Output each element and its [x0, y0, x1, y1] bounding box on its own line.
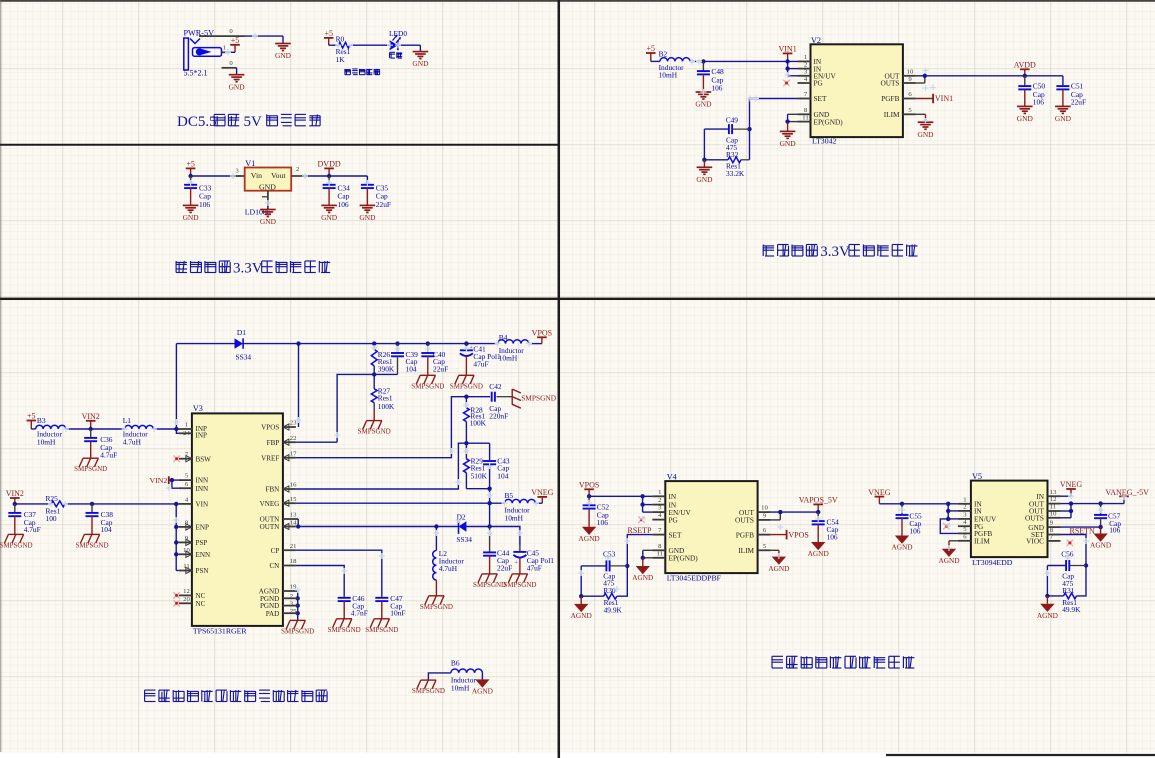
- wire VIN2 to R25: [15, 503, 51, 505]
- power port VPOS at V4 PGFB: [771, 530, 809, 540]
- svg-text:R31: R31: [1062, 586, 1075, 595]
- pin 1 GND of V1: [262, 191, 268, 210]
- pin 18 of V3: [269, 558, 297, 570]
- svg-text:VIN2: VIN2: [6, 489, 24, 498]
- junction SET/C53/R30: [625, 564, 629, 568]
- svg-text:17: 17: [290, 450, 297, 457]
- svg-text:LT3045EDDPBF: LT3045EDDPBF: [667, 574, 722, 583]
- op-amp U? regulator V1 LD1086 box: [245, 159, 292, 192]
- svg-text:VAPOS_5V: VAPOS_5V: [799, 496, 838, 505]
- svg-text:VPOS: VPOS: [261, 424, 279, 432]
- resistor R25 100: [46, 494, 66, 523]
- svg-text:47uF: 47uF: [527, 564, 542, 573]
- svg-text:AGND: AGND: [891, 543, 912, 552]
- svg-text:22uF: 22uF: [1071, 98, 1086, 107]
- svg-text:49.9K: 49.9K: [604, 605, 623, 614]
- capacitor C48 106: [697, 61, 724, 92]
- svg-text:V4: V4: [667, 473, 677, 482]
- no-connect X on V3 BSW: [173, 456, 179, 462]
- junction C53/R30/AGND: [579, 594, 583, 598]
- inductor L1 4.7uH: [123, 416, 154, 446]
- svg-text:106: 106: [597, 518, 608, 527]
- svg-text:RSETP: RSETP: [628, 526, 653, 535]
- junction SET/C56/R31: [1084, 563, 1088, 567]
- svg-text:SMPSGND: SMPSGND: [74, 465, 107, 473]
- junction node A R28/FBN/R29/C43: [464, 441, 468, 445]
- ground AGND below V4 GND: [632, 558, 653, 582]
- pin 4 of V5: [958, 519, 984, 531]
- title analog 3.3V regulator: [763, 244, 917, 260]
- svg-text:100K: 100K: [378, 402, 395, 411]
- svg-text:2: 2: [804, 61, 807, 68]
- net label RSETP: [628, 526, 653, 535]
- ground GND at LED: [412, 52, 429, 69]
- pin 24 of V3: [179, 430, 207, 440]
- svg-text:VNEG: VNEG: [531, 488, 553, 497]
- wire V2 GND pins tie: [788, 114, 798, 121]
- svg-text:ENN: ENN: [196, 551, 211, 559]
- capacitor C38 104: [86, 504, 114, 535]
- pin 1 of V5: [958, 496, 983, 508]
- op-amp converter V3 TPS65131RGER box: [192, 404, 283, 626]
- power +5 at V3 input: [27, 412, 37, 429]
- pin 9 of V2: [880, 76, 915, 88]
- inductor B3 10mH: [36, 416, 66, 446]
- wire enable pins tie: [176, 504, 179, 571]
- pin 8 of V2: [798, 107, 830, 119]
- svg-text:AGND: AGND: [768, 564, 789, 573]
- svg-text:220nF: 220nF: [489, 412, 508, 421]
- no-connect X on V2 PG: [783, 80, 789, 86]
- label LD1086: [245, 208, 271, 217]
- svg-text:INN: INN: [196, 485, 209, 493]
- wire B3 to L1: [66, 428, 125, 430]
- svg-text:VIN1: VIN1: [935, 94, 953, 103]
- svg-text:INP: INP: [196, 431, 207, 439]
- title dual-rail LDO: [772, 656, 914, 668]
- resistor R27 100K: [371, 374, 395, 420]
- label TPS65131RGER: [193, 627, 248, 636]
- wire OUTN rail: [298, 526, 458, 528]
- capacitor C37 4.7uF: [8, 504, 40, 535]
- pin 0 bottom of jack: [222, 60, 237, 68]
- pin 0 top of jack: [199, 28, 245, 36]
- ground GND at ILIM: [917, 122, 934, 139]
- svg-text:+: +: [514, 560, 518, 567]
- wire V5 IN tie: [948, 504, 958, 519]
- svg-text:GND: GND: [412, 59, 429, 68]
- ground GND below C50: [1017, 106, 1034, 123]
- connector PWR-5V barrel jack body: [184, 38, 222, 78]
- wire section divider horizontal full: [0, 298, 1155, 300]
- svg-text:GND: GND: [183, 213, 200, 222]
- junction gnd pin25: [296, 611, 300, 615]
- power VNEG at V5 input: [868, 488, 890, 504]
- wire B5 to VNEG port: [535, 502, 542, 504]
- pin 1 of V2: [798, 54, 822, 66]
- svg-text:1: 1: [804, 54, 807, 61]
- svg-text:B2: B2: [659, 49, 668, 58]
- ground AGND at V4 ILIM: [768, 557, 789, 573]
- pin arrow V3 right: [283, 455, 289, 461]
- junction VANEG/C57: [1098, 501, 1102, 505]
- wire jack pin0 to GND: [245, 36, 284, 43]
- pin 6 of V2: [881, 91, 916, 103]
- svg-text:390K: 390K: [378, 364, 395, 373]
- svg-text:V5: V5: [972, 472, 982, 481]
- pin 3 of V3: [260, 600, 298, 610]
- wire VPOS to V4 IN: [589, 495, 652, 497]
- ground SMPSGND below C37: [0, 534, 33, 549]
- ground GND at jack top pin: [275, 44, 292, 61]
- svg-text:NC: NC: [196, 600, 206, 608]
- resistor R26 390K: [371, 344, 395, 375]
- wire section divider horizontal left: [0, 144, 559, 146]
- wire V5 ILIM down: [949, 541, 958, 549]
- svg-text:SMPSGND: SMPSGND: [412, 687, 445, 695]
- pin arrow V3 right: [283, 523, 289, 529]
- junction ENP: [174, 525, 178, 529]
- svg-text:PAD: PAD: [266, 610, 280, 618]
- power port VIN1 at PGFB: [916, 94, 953, 104]
- ground AGND at B6: [472, 679, 493, 695]
- svg-text:R25: R25: [46, 494, 59, 503]
- junction VIN1/pin1: [785, 59, 789, 63]
- pin 7 of V2: [798, 91, 828, 103]
- svg-text:PSN: PSN: [196, 567, 209, 575]
- pin 17 of V3: [261, 450, 297, 462]
- wire V4 ILIM down: [771, 550, 779, 556]
- capacitor C36 4.7uF: [84, 429, 117, 459]
- pin 12 of V5: [1029, 496, 1061, 508]
- pin 5 of V4: [738, 543, 770, 555]
- svg-text:FBP: FBP: [267, 439, 280, 447]
- wire rail to VPOS port: [529, 343, 542, 345]
- ground SMPSGND at B6: [412, 680, 445, 695]
- pin 8 of V4: [652, 543, 684, 555]
- wire IN pins tie: [788, 61, 798, 75]
- pin 9 of V4: [735, 513, 771, 525]
- wire SET to C56/R31: [1061, 535, 1087, 566]
- wire V3 gnd pins tie: [297, 591, 299, 620]
- resistor R29 510K: [464, 443, 490, 489]
- svg-text:21: 21: [290, 543, 297, 550]
- wire +5 to B2: [651, 60, 660, 62]
- svg-text:OUTS: OUTS: [735, 516, 754, 525]
- wire FBP node: [337, 374, 397, 442]
- svg-text:4.7uF: 4.7uF: [24, 525, 41, 534]
- power VPOS at top rail: [532, 329, 552, 344]
- inductor B2 10mH: [659, 49, 690, 79]
- resistor R28 100K: [464, 397, 487, 444]
- svg-text:AGND: AGND: [472, 687, 493, 696]
- wire VNEG rail: [296, 502, 505, 504]
- svg-text:106: 106: [909, 527, 920, 536]
- power +5 at LED circuit: [324, 29, 334, 45]
- svg-text:+5: +5: [186, 160, 195, 169]
- capacitor C41 Cap Pol1 47uF: [460, 344, 501, 376]
- svg-text:VIN1: VIN1: [778, 45, 796, 54]
- pin 19 of V3: [259, 584, 298, 596]
- svg-text:+5: +5: [647, 44, 656, 53]
- capacitor C45 Cap Pol1 47uF: [513, 546, 554, 574]
- svg-text:SMPSGND: SMPSGND: [450, 382, 483, 390]
- svg-text:106: 106: [338, 200, 349, 209]
- wire C49 left leg down: [703, 129, 705, 160]
- svg-text:B6: B6: [451, 659, 460, 668]
- no-connect X on V5 PG: [943, 523, 949, 529]
- junction C41 top: [464, 341, 468, 345]
- svg-text:LT3094EDD: LT3094EDD: [972, 558, 1013, 567]
- pin 1 of jack: [222, 45, 230, 53]
- svg-text:100: 100: [46, 514, 57, 523]
- junction V2 gnd tie: [785, 119, 789, 123]
- wire LED0 to GND: [398, 45, 421, 51]
- pin 4 of V4: [652, 512, 678, 524]
- junction D2/C44/VNEG riser: [487, 524, 491, 528]
- svg-text:PG: PG: [669, 515, 679, 524]
- ground SMPSGND below L2: [420, 596, 453, 611]
- svg-text:AGND: AGND: [571, 611, 592, 620]
- svg-text:SMPSGND: SMPSGND: [411, 382, 444, 390]
- svg-text:15: 15: [290, 496, 297, 503]
- ground SMPSGND below R27: [358, 421, 391, 436]
- svg-text:10: 10: [761, 505, 768, 512]
- wire V2 OUT/OUTS tie: [916, 76, 925, 83]
- svg-text:GND: GND: [1017, 114, 1034, 123]
- op-amp regulator V4 LT3045EDDPBF box: [665, 473, 757, 574]
- pin 6 of V4: [736, 527, 771, 539]
- power +5 at jack: [230, 36, 240, 52]
- svg-text:1: 1: [185, 422, 188, 429]
- svg-text:GND: GND: [780, 139, 797, 148]
- capacitor C50 106: [1018, 76, 1045, 107]
- capacitor C42 220nF: [466, 382, 512, 421]
- ground SMPSGND below C41: [450, 375, 483, 390]
- svg-text:10nF: 10nF: [390, 608, 405, 617]
- svg-text:OUTN: OUTN: [260, 523, 280, 531]
- svg-text:SS34: SS34: [456, 535, 472, 544]
- junction VREF/C42/R28: [464, 395, 468, 399]
- svg-text:GND: GND: [1055, 114, 1072, 123]
- svg-text:5.5*2.1: 5.5*2.1: [184, 69, 208, 78]
- pin arrow V3 right: [283, 500, 289, 506]
- svg-text:13: 13: [290, 512, 297, 519]
- wire VNEG riser to OUTN rail: [489, 503, 491, 526]
- svg-text:10mH: 10mH: [659, 71, 678, 80]
- svg-text:SMPSGND: SMPSGND: [521, 394, 557, 403]
- power DVDD: [318, 160, 341, 176]
- junction C39 top: [395, 341, 399, 345]
- svg-text:Vin: Vin: [251, 171, 262, 180]
- wire CP to C47: [296, 550, 382, 595]
- capacitor C43 104: [466, 443, 510, 503]
- svg-text:16: 16: [290, 482, 297, 489]
- svg-text:SET: SET: [669, 530, 683, 539]
- svg-text:PSP: PSP: [196, 539, 208, 547]
- op-amp regulator V5 LT3094EDD box: [971, 472, 1048, 557]
- capacitor C52 106: [583, 496, 610, 527]
- svg-text:22uF: 22uF: [433, 364, 448, 373]
- svg-text:14: 14: [290, 519, 297, 526]
- svg-text:10mH: 10mH: [499, 354, 518, 363]
- capacitor C49 475: [704, 116, 749, 153]
- ground SMPSGND below C46: [328, 619, 361, 634]
- pin 11 of V5: [1029, 504, 1061, 516]
- svg-text:GND: GND: [695, 100, 712, 109]
- diode D1 SS34: [176, 328, 251, 429]
- power VAPOS_5V: [799, 496, 838, 512]
- power VIN2 at B3/C36: [82, 412, 100, 429]
- svg-text:12: 12: [183, 588, 190, 595]
- svg-text:49.9K: 49.9K: [1062, 605, 1081, 614]
- wire EN/UV to PGFB loop: [940, 519, 958, 534]
- svg-text:SMPSGND: SMPSGND: [358, 428, 391, 436]
- pin 9 of V3: [179, 535, 207, 547]
- ground GND below C48: [695, 92, 712, 109]
- svg-text:18: 18: [290, 558, 297, 565]
- svg-text:106: 106: [711, 83, 722, 92]
- wire +5 to V1 Vin: [191, 175, 241, 177]
- inductor B5 10mH: [505, 491, 536, 523]
- svg-text:106: 106: [827, 533, 838, 542]
- pin 13 of V3: [260, 512, 299, 524]
- junction pin2 tie: [785, 66, 789, 70]
- wire V2 ILIM to GND: [916, 114, 926, 122]
- capacitor C33 106: [184, 176, 212, 209]
- svg-text:+5: +5: [324, 29, 333, 38]
- svg-text:FBN: FBN: [265, 486, 279, 494]
- no-connect X on V4 PG: [638, 516, 644, 522]
- svg-text:VIN2: VIN2: [82, 412, 100, 421]
- ground SMPSGND below V3: [281, 620, 314, 635]
- pin 2 of V2: [798, 61, 822, 73]
- wire SET to C53/R30: [627, 535, 652, 566]
- svg-text:10mH: 10mH: [505, 513, 524, 522]
- svg-text:GND: GND: [696, 175, 713, 184]
- svg-text:VPOS: VPOS: [579, 481, 599, 490]
- pin 11 of V3: [179, 563, 209, 575]
- svg-text:R32: R32: [726, 150, 739, 159]
- svg-text:3.3V: 3.3V: [820, 244, 850, 260]
- pin 1 of V3: [179, 422, 207, 433]
- wire pin13 step: [297, 519, 299, 527]
- wire pin13 link: [1061, 495, 1072, 497]
- pin 10 of V4: [739, 505, 771, 517]
- wire +5 to B3: [31, 428, 35, 430]
- junction R26/R27/FBP: [372, 372, 376, 376]
- no-connect X on V5 VIOC: [1067, 540, 1073, 546]
- inductor B4 10mH: [498, 333, 529, 363]
- pin 10 of V2: [885, 68, 916, 80]
- junction R29/C43 bottom: [487, 487, 491, 491]
- svg-text:104: 104: [101, 525, 112, 534]
- svg-text:SMPSGND: SMPSGND: [75, 541, 108, 549]
- svg-text:B3: B3: [37, 416, 46, 425]
- svg-text:AGND: AGND: [1037, 611, 1058, 620]
- ground SMPSGND below C45: [503, 574, 536, 589]
- junction C56/R31/AGND: [1045, 594, 1049, 598]
- svg-text:OUTS: OUTS: [1025, 514, 1044, 523]
- capacitor C46 4.7nF: [338, 594, 368, 619]
- ground AGND below R31: [1037, 596, 1058, 620]
- pin 10 of V3: [179, 547, 210, 559]
- label power indicator comment: [345, 69, 380, 75]
- svg-text:2: 2: [658, 497, 661, 504]
- svg-text:+5: +5: [27, 412, 36, 421]
- capacitor C57 106: [1094, 504, 1121, 535]
- pin 15 of V3: [260, 496, 298, 508]
- pin 25 of V3: [266, 608, 298, 618]
- pin arrow V3 left: [186, 567, 192, 573]
- svg-text:AGND: AGND: [632, 573, 653, 582]
- svg-text:47uF: 47uF: [473, 360, 488, 369]
- svg-text:AVDD: AVDD: [1014, 61, 1036, 70]
- svg-text:510K: 510K: [471, 472, 488, 481]
- ground AGND below C57: [1090, 527, 1111, 550]
- pin 2 of V3: [260, 593, 298, 603]
- title dual-rail converter: [145, 690, 328, 701]
- pin 1 of V4: [652, 489, 677, 501]
- ground GND below C33: [183, 205, 200, 222]
- no-connect X on V3 NC12: [173, 592, 179, 598]
- junction ENN: [174, 552, 178, 556]
- svg-text:NC: NC: [196, 592, 206, 600]
- power VNEG at V5 pin13: [1060, 480, 1082, 496]
- svg-text:12: 12: [1050, 496, 1057, 503]
- inductor B6 10mH: [428, 659, 482, 693]
- power VPOS at V4 input: [579, 481, 599, 497]
- svg-text:11: 11: [802, 114, 808, 121]
- junction V5 out tie2: [1069, 509, 1073, 513]
- junction AVDD/C50: [1023, 74, 1027, 78]
- svg-text:GND: GND: [259, 183, 276, 192]
- LED LED0 red: [389, 29, 407, 58]
- junction gnd pin2: [296, 596, 300, 600]
- svg-text:1: 1: [963, 496, 966, 503]
- svg-text:SMPSGND: SMPSGND: [328, 626, 361, 634]
- ground AGND at V5 ILIM: [938, 549, 959, 565]
- svg-text:CP: CP: [271, 547, 280, 555]
- svg-text:SMPSGND: SMPSGND: [503, 581, 536, 589]
- capacitor C56 475: [1047, 550, 1086, 588]
- power VANEG_-5V: [1106, 488, 1150, 497]
- wire INN tie: [172, 480, 179, 488]
- title digital 3.3V regulator: [176, 261, 330, 277]
- ground AGND below C55: [891, 536, 912, 552]
- capacitor C40 22uF: [421, 344, 448, 376]
- diode D2 SS34: [456, 512, 489, 544]
- wire V2 SET to C49/R32: [750, 99, 798, 160]
- pin 13 of V5: [1036, 489, 1060, 501]
- svg-text:104: 104: [406, 364, 417, 373]
- capacitor C44 22uF: [483, 527, 512, 574]
- svg-text:AGND: AGND: [1090, 541, 1111, 550]
- capacitor C54 106: [812, 512, 839, 542]
- svg-text:LED0: LED0: [389, 29, 407, 38]
- svg-text:GND: GND: [321, 213, 338, 222]
- svg-text:106: 106: [199, 200, 210, 209]
- junction C40 top: [426, 341, 430, 345]
- svg-text:VNEG: VNEG: [260, 500, 280, 508]
- wire V4 IN tie: [643, 496, 653, 512]
- pin 16 of V3: [265, 482, 297, 494]
- svg-text:SMPSGND: SMPSGND: [0, 541, 33, 549]
- svg-text:B4: B4: [499, 333, 508, 342]
- wire V1 Vout to DVDD and C35: [304, 176, 367, 185]
- pin 4 of V2: [798, 76, 824, 88]
- wire VNEG to V5 IN: [879, 503, 958, 505]
